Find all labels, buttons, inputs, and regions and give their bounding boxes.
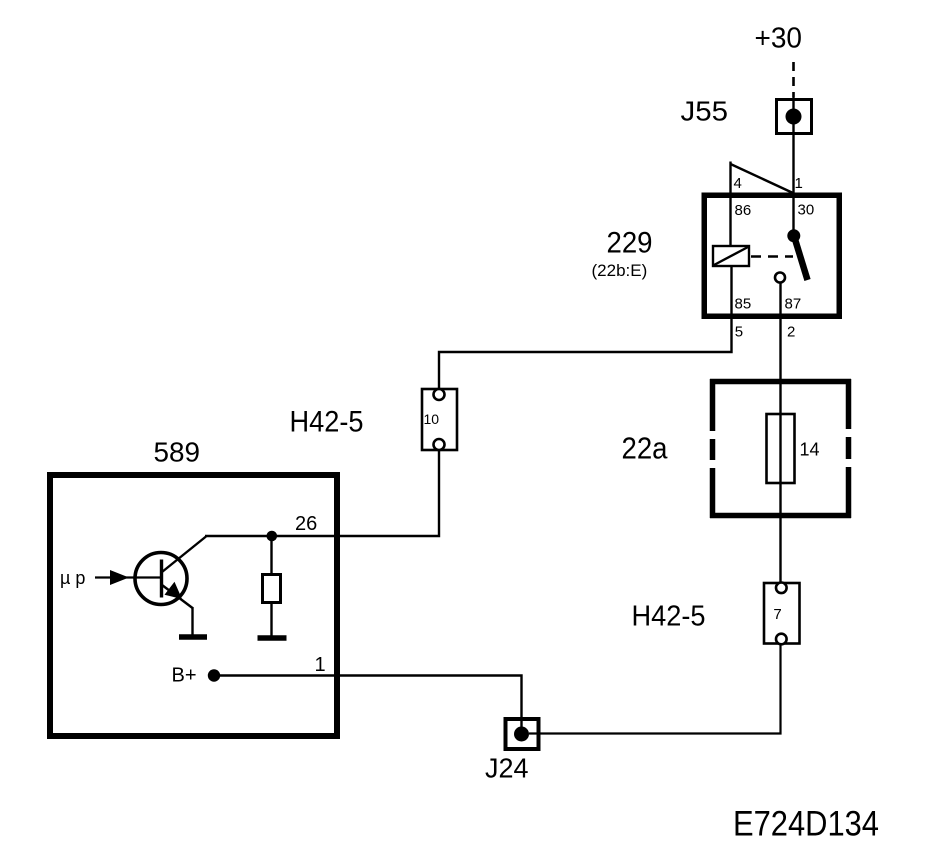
relay switch pivot dot — [787, 229, 800, 242]
svg-text:1: 1 — [315, 654, 326, 676]
transistor Q body circle — [135, 553, 187, 605]
svg-text:26: 26 — [295, 513, 317, 535]
svg-text:H42-5: H42-5 — [290, 406, 364, 439]
ground bar (emitter) — [179, 634, 207, 640]
svg-text:J55: J55 — [681, 96, 729, 127]
triangle marker above relay pin 4 — [729, 162, 731, 195]
svg-text:µ p: µ p — [60, 568, 85, 588]
component 22a dashed box: top edge — [710, 379, 851, 385]
relay contact 87 circle — [775, 273, 785, 283]
wire: node down to resistor — [270, 538, 272, 575]
wire: relay pin 86 from box top to coil — [729, 195, 731, 247]
svg-text:J24: J24 — [485, 753, 529, 784]
svg-text:22a: 22a — [622, 431, 669, 466]
svg-text:(22b:E): (22b:E) — [592, 261, 648, 280]
transistor collector lead — [162, 537, 206, 573]
svg-text:30: 30 — [798, 202, 815, 219]
junction J24 box — [506, 719, 539, 749]
input arrowhead — [110, 570, 129, 585]
node 26 solder dot — [267, 531, 278, 542]
ground bar (resistor) — [258, 635, 287, 641]
svg-text:7: 7 — [773, 606, 781, 623]
relay 229 box — [704, 195, 839, 316]
component 22a dashed box: left edge — [710, 379, 716, 518]
svg-text:H42-5: H42-5 — [632, 601, 706, 633]
dashed actuation link coil to switch arm — [751, 255, 793, 257]
svg-text:2: 2 — [787, 324, 795, 341]
svg-text:4: 4 — [734, 175, 742, 192]
control module 589 box — [50, 475, 337, 736]
emitter arrowhead — [165, 582, 183, 599]
wire: dashed battery feed +30 down to J55 — [792, 62, 795, 97]
wire: resistor to ground — [270, 602, 272, 636]
junction J24 solder dot — [514, 727, 529, 742]
svg-text:229: 229 — [607, 227, 653, 260]
base lead wire with arrow — [95, 576, 160, 578]
connector H42-5 pin 7: body — [764, 583, 800, 644]
wire: coil to relay pin 85 / terminal 5, across to connector H42-5 — [439, 266, 732, 389]
connector pin 7 bottom terminal — [776, 634, 787, 645]
emitter down wire — [191, 607, 193, 635]
relay coil — [713, 246, 749, 266]
wire: J24 right to connector H42-5 pin 7 — [529, 645, 781, 734]
connector H42-5 pin 10: body — [422, 389, 457, 450]
transistor emitter lead — [162, 585, 193, 608]
svg-text:86: 86 — [735, 202, 752, 219]
fuse element inside 22a — [767, 414, 795, 483]
component 22a dashed box: right edge — [846, 379, 852, 518]
wire: relay pin 30 from box top to switch pivot — [792, 195, 794, 236]
svg-text:85: 85 — [735, 296, 752, 313]
svg-text:1: 1 — [795, 175, 803, 192]
transistor base bar — [160, 560, 163, 598]
wire: through J55 down to relay pin 1 — [792, 97, 794, 194]
component 22a dashed box: bottom edge — [710, 513, 851, 519]
svg-text:87: 87 — [785, 296, 802, 313]
svg-text:589: 589 — [154, 437, 201, 468]
junction J55 solder dot — [786, 109, 802, 125]
junction J55 (box) — [777, 100, 812, 134]
wire: connector pin 10 down and left to node 26 — [205, 451, 439, 537]
connector pin 10 top terminal — [434, 389, 445, 400]
svg-text:E724D134: E724D134 — [733, 805, 879, 844]
connector pin 7 top terminal — [776, 583, 787, 594]
svg-text:5: 5 — [735, 324, 743, 341]
resistor R — [263, 575, 281, 603]
svg-text:+30: +30 — [755, 23, 803, 55]
wire: B+ pin 1 across to J24 — [214, 676, 522, 732]
connector pin 10 bottom terminal — [434, 439, 445, 450]
relay switch arm — [794, 236, 808, 280]
B+ terminal dot — [208, 669, 220, 681]
wire: relay terminal 2 down through 22a to connector H42-5 pin 7 — [779, 283, 781, 583]
svg-text:14: 14 — [800, 440, 820, 460]
svg-text:B+: B+ — [172, 665, 197, 687]
svg-text:10: 10 — [424, 411, 440, 427]
